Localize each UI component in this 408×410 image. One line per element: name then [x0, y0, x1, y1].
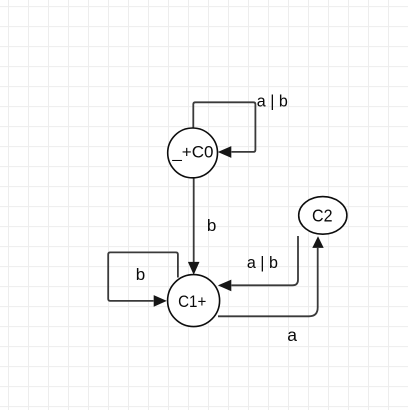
svg-text:C1+: C1+ — [178, 292, 206, 311]
svg-text:C2: C2 — [312, 205, 333, 225]
svg-text:a: a — [287, 325, 297, 345]
svg-text:b: b — [207, 216, 216, 235]
svg-text:_+C0: _+C0 — [171, 143, 213, 162]
svg-text:a | b: a | b — [257, 91, 288, 110]
svg-text:a | b: a | b — [247, 253, 278, 272]
svg-text:b: b — [136, 265, 145, 284]
